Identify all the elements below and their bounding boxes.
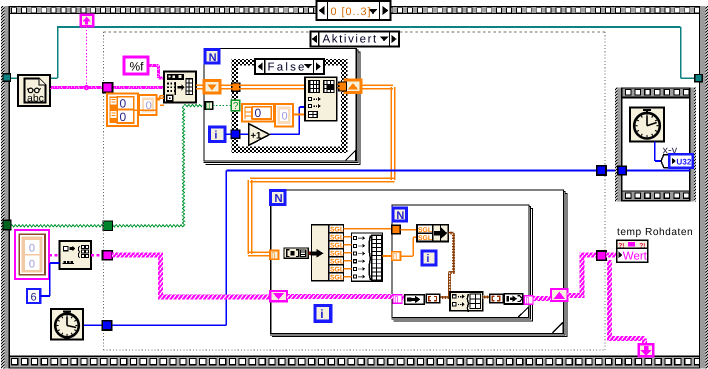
wire pink hatched to wert xyxy=(606,252,617,257)
wire pink hatched to lower loop xyxy=(112,253,271,300)
svg-text:0: 0 xyxy=(120,97,127,111)
svg-text:Aktiviert: Aktiviert xyxy=(323,34,378,46)
case selector label False xyxy=(255,59,324,74)
svg-text:0: 0 xyxy=(282,111,288,123)
tunnel orange out of False xyxy=(339,82,347,91)
icon spreadsheet string to array xyxy=(164,71,196,102)
dog-ear lower loop xyxy=(552,322,563,333)
wire orange inner loop xyxy=(400,230,417,257)
shift register down-arrow left upper loop xyxy=(204,81,220,93)
svg-text:0: 0 xyxy=(29,243,35,255)
tunnel blue on sequence border xyxy=(618,166,627,175)
svg-text:Wert: Wert xyxy=(623,251,648,263)
iteration terminal i inner loop xyxy=(422,251,436,265)
outer stacked-sequence frame bottom film band xyxy=(1,356,707,369)
indicator terminal U32 x-y xyxy=(661,154,693,167)
svg-text:[]: [] xyxy=(394,296,398,304)
constant numeric 0 grayed xyxy=(139,95,156,115)
node unbundle SGL xyxy=(312,225,344,282)
constant numeric 0 grayed in False xyxy=(275,104,293,127)
wire green dotted to ? tunnel xyxy=(213,105,231,107)
svg-text:0: 0 xyxy=(120,110,127,124)
tunnel pink on disable border xyxy=(103,83,113,93)
icon tick count ms clock xyxy=(630,108,664,142)
shift register pink up-arrow on top border xyxy=(81,15,93,26)
wire pink wavy string xyxy=(50,87,164,89)
svg-text:[]: [] xyxy=(271,252,275,260)
wire blue long timing xyxy=(83,171,663,326)
tunnel orange into False xyxy=(232,83,240,91)
wire blue tick count xyxy=(655,142,663,162)
dog-ear inner loop xyxy=(518,307,528,317)
terminal green left frame xyxy=(3,220,11,229)
wire blue from 6 xyxy=(40,263,59,296)
tunnel blue on False border xyxy=(231,130,240,138)
local variable Wert xyxy=(617,240,648,263)
junction ring pink xyxy=(84,86,88,90)
case structure False hatched border xyxy=(232,59,348,153)
for loop upper (stacked) xyxy=(204,49,361,166)
diagram-disable selector label Aktiviert xyxy=(311,32,400,47)
tunnel pink array out of inner loop xyxy=(524,296,533,305)
iteration terminal i upper loop xyxy=(210,127,225,142)
svg-text:temp Rohdaten: temp Rohdaten xyxy=(617,227,693,238)
tunnel orange filled inner loop xyxy=(392,225,401,233)
constant numeric array 0 0 xyxy=(107,94,138,127)
svg-text:%f: %f xyxy=(130,60,145,74)
icon VISA configure serial port xyxy=(59,241,91,269)
iteration terminal i lower loop xyxy=(315,306,331,322)
outer stacked-sequence frame top film band xyxy=(1,6,707,14)
icon bundle cluster bottom xyxy=(450,292,483,312)
tunnel empty-array on loop border xyxy=(205,101,213,110)
tunnel pink cluster on disable border xyxy=(103,251,113,260)
junction pink square xyxy=(597,251,606,260)
node bundle SGL SGL xyxy=(417,225,448,242)
svg-text:[]: [] xyxy=(526,296,530,304)
svg-text:0: 0 xyxy=(29,258,35,270)
svg-text:False: False xyxy=(268,61,307,73)
terminal teal left xyxy=(3,74,10,81)
svg-text:i: i xyxy=(320,307,323,321)
node index-bundle cluster array xyxy=(352,233,383,281)
icon type cast c1 xyxy=(426,294,439,302)
wire orange array scan to loop xyxy=(196,85,204,88)
wire brown cluster xyxy=(440,232,456,299)
wire green boolean xyxy=(10,105,202,227)
tunnel orange hollow inner loop xyxy=(392,252,401,261)
arrow into unbundle xyxy=(311,249,324,258)
constant cluster serial settings xyxy=(15,230,49,279)
wire orange array through False xyxy=(220,84,345,88)
outer frame right band xyxy=(699,6,708,369)
wire orange to replace-icon xyxy=(293,114,305,116)
for loop inner (stacked) xyxy=(392,205,534,322)
count terminal N upper loop xyxy=(205,50,219,64)
dog-ear upper loop xyxy=(346,150,356,161)
icon index array xyxy=(284,248,308,258)
svg-text:SGL: SGL xyxy=(418,235,432,242)
flat sequence frame x-y xyxy=(615,88,696,202)
shift register pink up-arrow lower loop xyxy=(551,289,568,301)
sequence frame selector label 0 [0..3] xyxy=(317,1,391,20)
wire blue iteration xyxy=(225,107,305,134)
svg-text:i: i xyxy=(426,253,429,265)
wire pink dashed cluster to visa xyxy=(49,254,59,257)
count terminal N inner loop xyxy=(393,208,407,222)
wire orange node to inner tunnel xyxy=(383,255,393,257)
svg-text:SGL: SGL xyxy=(330,274,344,281)
svg-text:?!: ?! xyxy=(618,242,624,249)
svg-text:0 [0..3]: 0 [0..3] xyxy=(331,6,372,18)
constant numeric 6 xyxy=(27,289,40,303)
tunnel pink array into inner loop xyxy=(393,295,402,304)
tunnel blue on disable right border xyxy=(597,166,606,175)
svg-text:N: N xyxy=(274,193,282,205)
svg-text:?!: ?! xyxy=(639,242,645,249)
svg-text:+1: +1 xyxy=(251,131,263,142)
function increment +1 xyxy=(249,124,270,146)
outer frame left band xyxy=(1,6,10,369)
wire pink dashed visa to tunnel xyxy=(91,254,103,257)
icon replace array subset xyxy=(305,77,337,121)
coercion dot xyxy=(308,252,311,255)
icon array to cluster xyxy=(405,295,425,305)
svg-text:N: N xyxy=(209,52,217,64)
wire brown out xyxy=(483,296,490,299)
svg-text:?: ? xyxy=(233,101,239,112)
svg-text:N: N xyxy=(396,210,404,222)
shift register up-arrow right upper loop xyxy=(345,80,361,92)
icon build array bottom xyxy=(504,294,522,304)
svg-text:[]: [] xyxy=(393,253,397,261)
diagram-disable structure dashed border xyxy=(103,32,605,350)
svg-text:[]: [] xyxy=(206,101,210,110)
icon wait until next ms multiple clock xyxy=(51,309,83,340)
svg-text:i: i xyxy=(214,130,217,142)
icon read text file xyxy=(18,75,50,106)
wire pink hatched down to frame xyxy=(607,260,647,345)
svg-text:abc: abc xyxy=(27,93,44,105)
tunnel orange array into lower loop xyxy=(270,251,278,260)
svg-text:6: 6 xyxy=(31,291,37,303)
wire pink hatched inner segment xyxy=(287,294,405,300)
tunnel boolean ? on False border xyxy=(231,100,239,112)
for loop lower (stacked) xyxy=(270,190,567,337)
count terminal N lower loop xyxy=(271,191,286,206)
svg-text:SGL: SGL xyxy=(418,227,432,234)
wire pink dotted vertical xyxy=(86,27,88,85)
constant array 0 in False xyxy=(242,104,274,122)
tunnel blue on disable border bottom xyxy=(102,321,112,330)
constant string %f xyxy=(124,57,148,74)
label x-y xyxy=(663,145,678,157)
wire pink wavy from %f xyxy=(149,65,165,79)
shift register pink down-arrow lower loop xyxy=(270,291,287,301)
wire teal timing xyxy=(8,27,697,78)
shift register pink down arrow on frame xyxy=(639,344,653,356)
terminal teal right xyxy=(695,74,702,81)
wire blue long inside sequence xyxy=(626,170,690,172)
svg-text:0: 0 xyxy=(255,106,262,120)
tunnel green on disable border xyxy=(103,221,113,231)
wires orange SGL rows xyxy=(344,229,393,277)
icon type cast c2 xyxy=(490,294,504,303)
wire orange array down to lower loop xyxy=(248,85,395,255)
svg-text:U32: U32 xyxy=(676,158,691,167)
wire pink hatched right up xyxy=(568,252,597,298)
wire pink hatched to shift register xyxy=(533,296,551,301)
wire orange from constants xyxy=(134,96,164,111)
label temp Rohdaten xyxy=(617,227,693,238)
